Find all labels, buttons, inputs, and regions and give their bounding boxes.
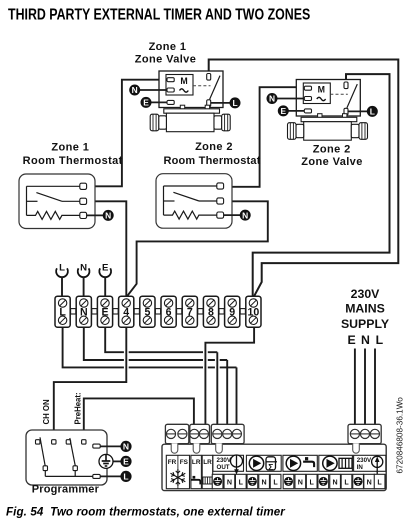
terminal 9 (225, 296, 240, 327)
terminal N (76, 296, 91, 327)
terminal link 4-5 (134, 309, 139, 314)
svg-text:230V: 230V (217, 457, 232, 464)
terminal link 7-8 (198, 309, 203, 314)
svg-text:SUPPLY: SUPPLY (341, 317, 389, 331)
terminal 10 (246, 296, 261, 327)
svg-text:L: L (239, 478, 244, 486)
wire: programmer PreHeat to boiler FS (84, 398, 194, 440)
svg-text:Zone Valve: Zone Valve (135, 54, 196, 66)
svg-text:Zone 2: Zone 2 (195, 141, 233, 153)
svg-text:LR: LR (192, 459, 201, 466)
wire: mains N (364, 349, 366, 429)
svg-text:10: 10 (248, 306, 260, 318)
wire: terminal N to 230V OUT N (84, 327, 227, 360)
svg-text:N: N (80, 306, 88, 318)
svg-text:IN: IN (357, 464, 364, 471)
boiler 230V IN cell L (374, 474, 385, 488)
svg-text:230V: 230V (351, 287, 381, 301)
boiler 230V IN cell N (364, 474, 375, 488)
wire: zone valve 2 switch to terminal 10 (253, 74, 390, 296)
connector block FR FS (165, 424, 188, 443)
svg-text:N: N (333, 478, 338, 486)
connector block LR-FS (190, 424, 210, 443)
svg-text:L: L (59, 262, 65, 273)
label 230V MAINS SUPPLY (341, 287, 389, 347)
svg-text:Room Thermostat: Room Thermostat (23, 155, 123, 167)
svg-text:E: E (347, 333, 355, 347)
ground symbol (99, 454, 113, 468)
cell LR (hot water) (191, 455, 202, 488)
label Zone 2 Zone Valve (301, 144, 362, 169)
boiler cylinder cell L (270, 474, 281, 488)
terminal link 9-10 (240, 309, 245, 314)
boiler hot water cell N (295, 474, 306, 488)
label Zone 2 Room Thermostat (163, 141, 260, 167)
radiator icon (heating) (339, 458, 352, 468)
zone valve ZV2 (267, 80, 378, 141)
pump icon (cylinder circuit) (249, 456, 263, 470)
svg-text:N: N (227, 478, 232, 486)
svg-text:Zone Valve: Zone Valve (301, 156, 362, 168)
pump icon (hot water) (286, 456, 300, 470)
svg-text:6720846808-36.1Wo: 6720846808-36.1Wo (396, 397, 405, 474)
svg-text:N: N (262, 478, 267, 486)
svg-text:Σ: Σ (268, 462, 273, 472)
svg-text:Zone 1: Zone 1 (149, 41, 187, 53)
wire: terminal 10 to boiler LR (203, 347, 208, 372)
programmer box (26, 430, 107, 485)
svg-text:230V: 230V (357, 457, 372, 464)
terminal 7 (182, 296, 197, 327)
label Zone 1 Room Thermostat (23, 141, 123, 167)
tap icon small (191, 476, 200, 485)
wire: terminal L to 230V OUT L (63, 327, 237, 367)
boiler section heating top cell (319, 455, 353, 471)
connector cup E (99, 262, 111, 296)
svg-text:E: E (123, 457, 129, 467)
wire: mains L (374, 349, 376, 429)
boiler cylinder cell N (259, 474, 270, 488)
boiler 230V OUT cell earth (212, 474, 223, 488)
connector cup N (78, 262, 90, 296)
wire slot (353, 443, 360, 453)
svg-text:E: E (102, 262, 109, 273)
terminal link L-N (71, 309, 76, 314)
svg-text:9: 9 (229, 306, 235, 318)
svg-text:Zone 2: Zone 2 (313, 144, 351, 156)
node N (programmer) (120, 441, 131, 452)
wire slot (171, 443, 178, 453)
wire: programmer L (100, 475, 121, 477)
svg-text:5: 5 (144, 306, 150, 318)
boiler terminal strip body (162, 444, 386, 490)
terminal link N-E (92, 309, 97, 314)
cell LR (heating) (202, 455, 213, 488)
mains in icon (372, 456, 383, 474)
svg-text:Room Thermostat: Room Thermostat (163, 155, 260, 167)
boiler section cylinder top cell (246, 455, 281, 471)
wire: thermostat 1 terminal 2 to terminal 4 (87, 201, 127, 296)
terminal 5 (140, 296, 155, 327)
boiler hot water cell earth (283, 474, 294, 488)
wire: thermostat 2 terminal 2 to terminal 4 (127, 201, 267, 295)
boiler section 230V IN top cell (354, 455, 386, 471)
node L (programmer) (120, 471, 131, 482)
frost icon (171, 469, 186, 486)
terminal 6 (161, 296, 176, 327)
svg-text:4: 4 (123, 306, 129, 318)
wire: mains E (354, 349, 356, 429)
wire slot (193, 443, 200, 453)
wire: terminal E to 230V OUT earth (105, 327, 217, 352)
svg-text:OUT: OUT (217, 464, 230, 471)
svg-text:L: L (376, 333, 384, 347)
svg-text:L: L (273, 478, 278, 486)
svg-text:L: L (377, 478, 382, 486)
svg-text:MAINS: MAINS (345, 302, 385, 316)
cell FR FS (166, 455, 189, 488)
connector block 230V OUT (211, 424, 244, 443)
svg-text:CH ON: CH ON (42, 399, 51, 424)
terminal link 8-9 (219, 309, 224, 314)
svg-text:6: 6 (166, 306, 172, 318)
wire: programmer N (100, 445, 121, 447)
label 230V OUT (217, 457, 232, 471)
wire: zone valve 1 motor to thermostat 1 terminal 1 (87, 80, 167, 187)
terminal L (55, 296, 70, 327)
svg-text:Programmer: Programmer (32, 484, 100, 496)
svg-text:8: 8 (208, 306, 214, 318)
boiler heating cell N (330, 474, 341, 488)
thermostat 2 (156, 174, 251, 229)
boiler section 230V OUT top cell (213, 455, 244, 471)
pump icon (heating) (323, 456, 337, 470)
boiler heating cell L (341, 474, 352, 488)
pump out icon (231, 455, 243, 475)
cylinder icon (266, 457, 277, 472)
zone valve ZV1 (129, 71, 240, 132)
wire: zone valve 1 switch to terminal 10 (209, 60, 399, 296)
svg-text:7: 7 (187, 306, 193, 318)
svg-text:N: N (367, 478, 372, 486)
boiler heating cell earth (318, 474, 329, 488)
connector block mains (348, 424, 381, 443)
svg-text:L: L (310, 478, 315, 486)
svg-text:L: L (344, 478, 349, 486)
label Zone 1 Zone Valve (135, 41, 196, 66)
svg-text:L: L (123, 472, 128, 482)
svg-text:FS: FS (180, 459, 189, 466)
tap icon (hot water) (303, 457, 314, 467)
wire: programmer E (113, 460, 121, 462)
svg-text:L: L (59, 306, 66, 318)
terminal 4 (119, 296, 134, 327)
svg-text:THIRD PARTY EXTERNAL TIMER AND: THIRD PARTY EXTERNAL TIMER AND TWO ZONES (8, 5, 310, 23)
thermostat 1 (19, 174, 114, 229)
svg-text:N: N (123, 442, 129, 452)
terminal E (97, 296, 112, 327)
boiler cylinder cell earth (247, 474, 258, 488)
svg-text:N: N (361, 333, 370, 347)
svg-text:E: E (101, 306, 108, 318)
terminal 8 (203, 296, 218, 327)
radiator icon small (203, 477, 212, 484)
svg-text:FR: FR (168, 459, 177, 466)
wire: thermostat 2 terminal 1 to zone valve 2 motor (223, 87, 304, 187)
wire: terminal 4 to programmer CH ON (124, 345, 129, 372)
label 230V IN (357, 457, 372, 471)
svg-text:N: N (298, 478, 303, 486)
boiler hot water cell L (306, 474, 317, 488)
svg-text:PreHeat:: PreHeat: (74, 392, 83, 424)
svg-text:N: N (80, 262, 87, 273)
svg-text:Zone 1: Zone 1 (51, 141, 89, 153)
boiler 230V IN cell earth (353, 474, 364, 488)
boiler 230V OUT cell L (235, 474, 246, 488)
svg-text:Fig. 54 Two room thermostats,: Fig. 54 Two room thermostats, one extern… (6, 506, 286, 519)
terminal link 5-6 (155, 309, 160, 314)
boiler section hot water top cell (283, 455, 317, 471)
svg-text:LR: LR (203, 459, 212, 466)
node E (programmer) (120, 456, 131, 467)
boiler 230V OUT cell N (224, 474, 235, 488)
wire slot (216, 443, 223, 453)
connector cup L (56, 262, 68, 296)
terminal link 6-7 (177, 309, 182, 314)
terminal link E-4 (113, 309, 118, 314)
